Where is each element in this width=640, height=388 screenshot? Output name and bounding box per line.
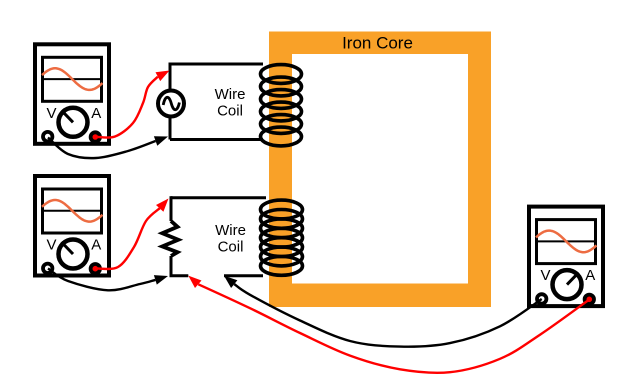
meter M2 body: [35, 176, 109, 276]
lead: M1 red to primary top corner: [96, 77, 158, 138]
wire: secondary bottom right segment: [224, 274, 263, 277]
resistor R load: [162, 221, 178, 256]
meter M3 black terminal: [537, 294, 546, 303]
meter M2 knob pointer: [61, 242, 73, 254]
meter M3 display sine trace: [536, 231, 597, 253]
svg-text:Wire: Wire: [215, 86, 246, 103]
svg-text:Wire: Wire: [215, 222, 246, 239]
wire: secondary top: [171, 196, 266, 199]
wire: primary top: [170, 63, 263, 66]
lead: M2 black to secondary bottom corner: [48, 269, 155, 291]
meter M2 black terminal: [43, 264, 52, 273]
wire: secondary left upper: [170, 196, 173, 221]
meter M1 display zero line: [41, 78, 103, 80]
svg-text:V: V: [540, 267, 550, 284]
primary coil L1: [261, 65, 302, 146]
wire: secondary bottom left stub: [170, 274, 189, 277]
svg-text:A: A: [91, 237, 101, 254]
meter M1 knob pointer: [61, 110, 73, 122]
meter M2 knob: [59, 240, 88, 269]
lead: M3 red to secondary bottom stub: [198, 284, 588, 373]
meter M3 display zero line: [535, 240, 597, 242]
meter M1 black terminal: [43, 132, 52, 141]
svg-text:Iron Core: Iron Core: [342, 34, 413, 53]
AC source V1: [158, 91, 184, 117]
svg-text:A: A: [585, 267, 595, 284]
svg-text:V: V: [46, 237, 56, 254]
svg-text:Coil: Coil: [217, 103, 243, 120]
wire: secondary left lower: [170, 256, 173, 276]
meter M1 display sine trace: [42, 68, 103, 90]
meter M1 knob: [59, 108, 88, 137]
svg-text:A: A: [91, 105, 101, 122]
wire: primary bottom: [170, 138, 263, 141]
meter M2 display: [43, 189, 102, 233]
meter M3 body: [529, 207, 603, 307]
meter M1 red terminal: [91, 132, 100, 141]
lead: M1 black to primary bottom corner: [48, 138, 156, 159]
meter M2 display sine trace: [42, 200, 103, 222]
meter M1 display: [43, 57, 102, 101]
meter M1 body: [35, 44, 109, 144]
wire: primary left lower: [169, 116, 172, 140]
iron core: [269, 32, 491, 308]
svg-text:Coil: Coil: [218, 239, 244, 256]
meter M2 red terminal: [91, 264, 100, 273]
AC source sine symbol: [163, 97, 179, 109]
meter M3 knob pointer: [567, 273, 579, 285]
lead: M3 black to secondary bottom wire: [234, 284, 541, 347]
meter M3 knob: [553, 270, 582, 299]
lead: M2 red to secondary top corner: [96, 208, 159, 269]
meter M3 red terminal: [585, 295, 594, 304]
svg-text:V: V: [46, 105, 56, 122]
secondary coil L2: [261, 200, 303, 275]
meter M2 display zero line: [41, 210, 103, 212]
wire: primary left upper: [169, 63, 172, 92]
meter M3 display: [537, 220, 596, 264]
